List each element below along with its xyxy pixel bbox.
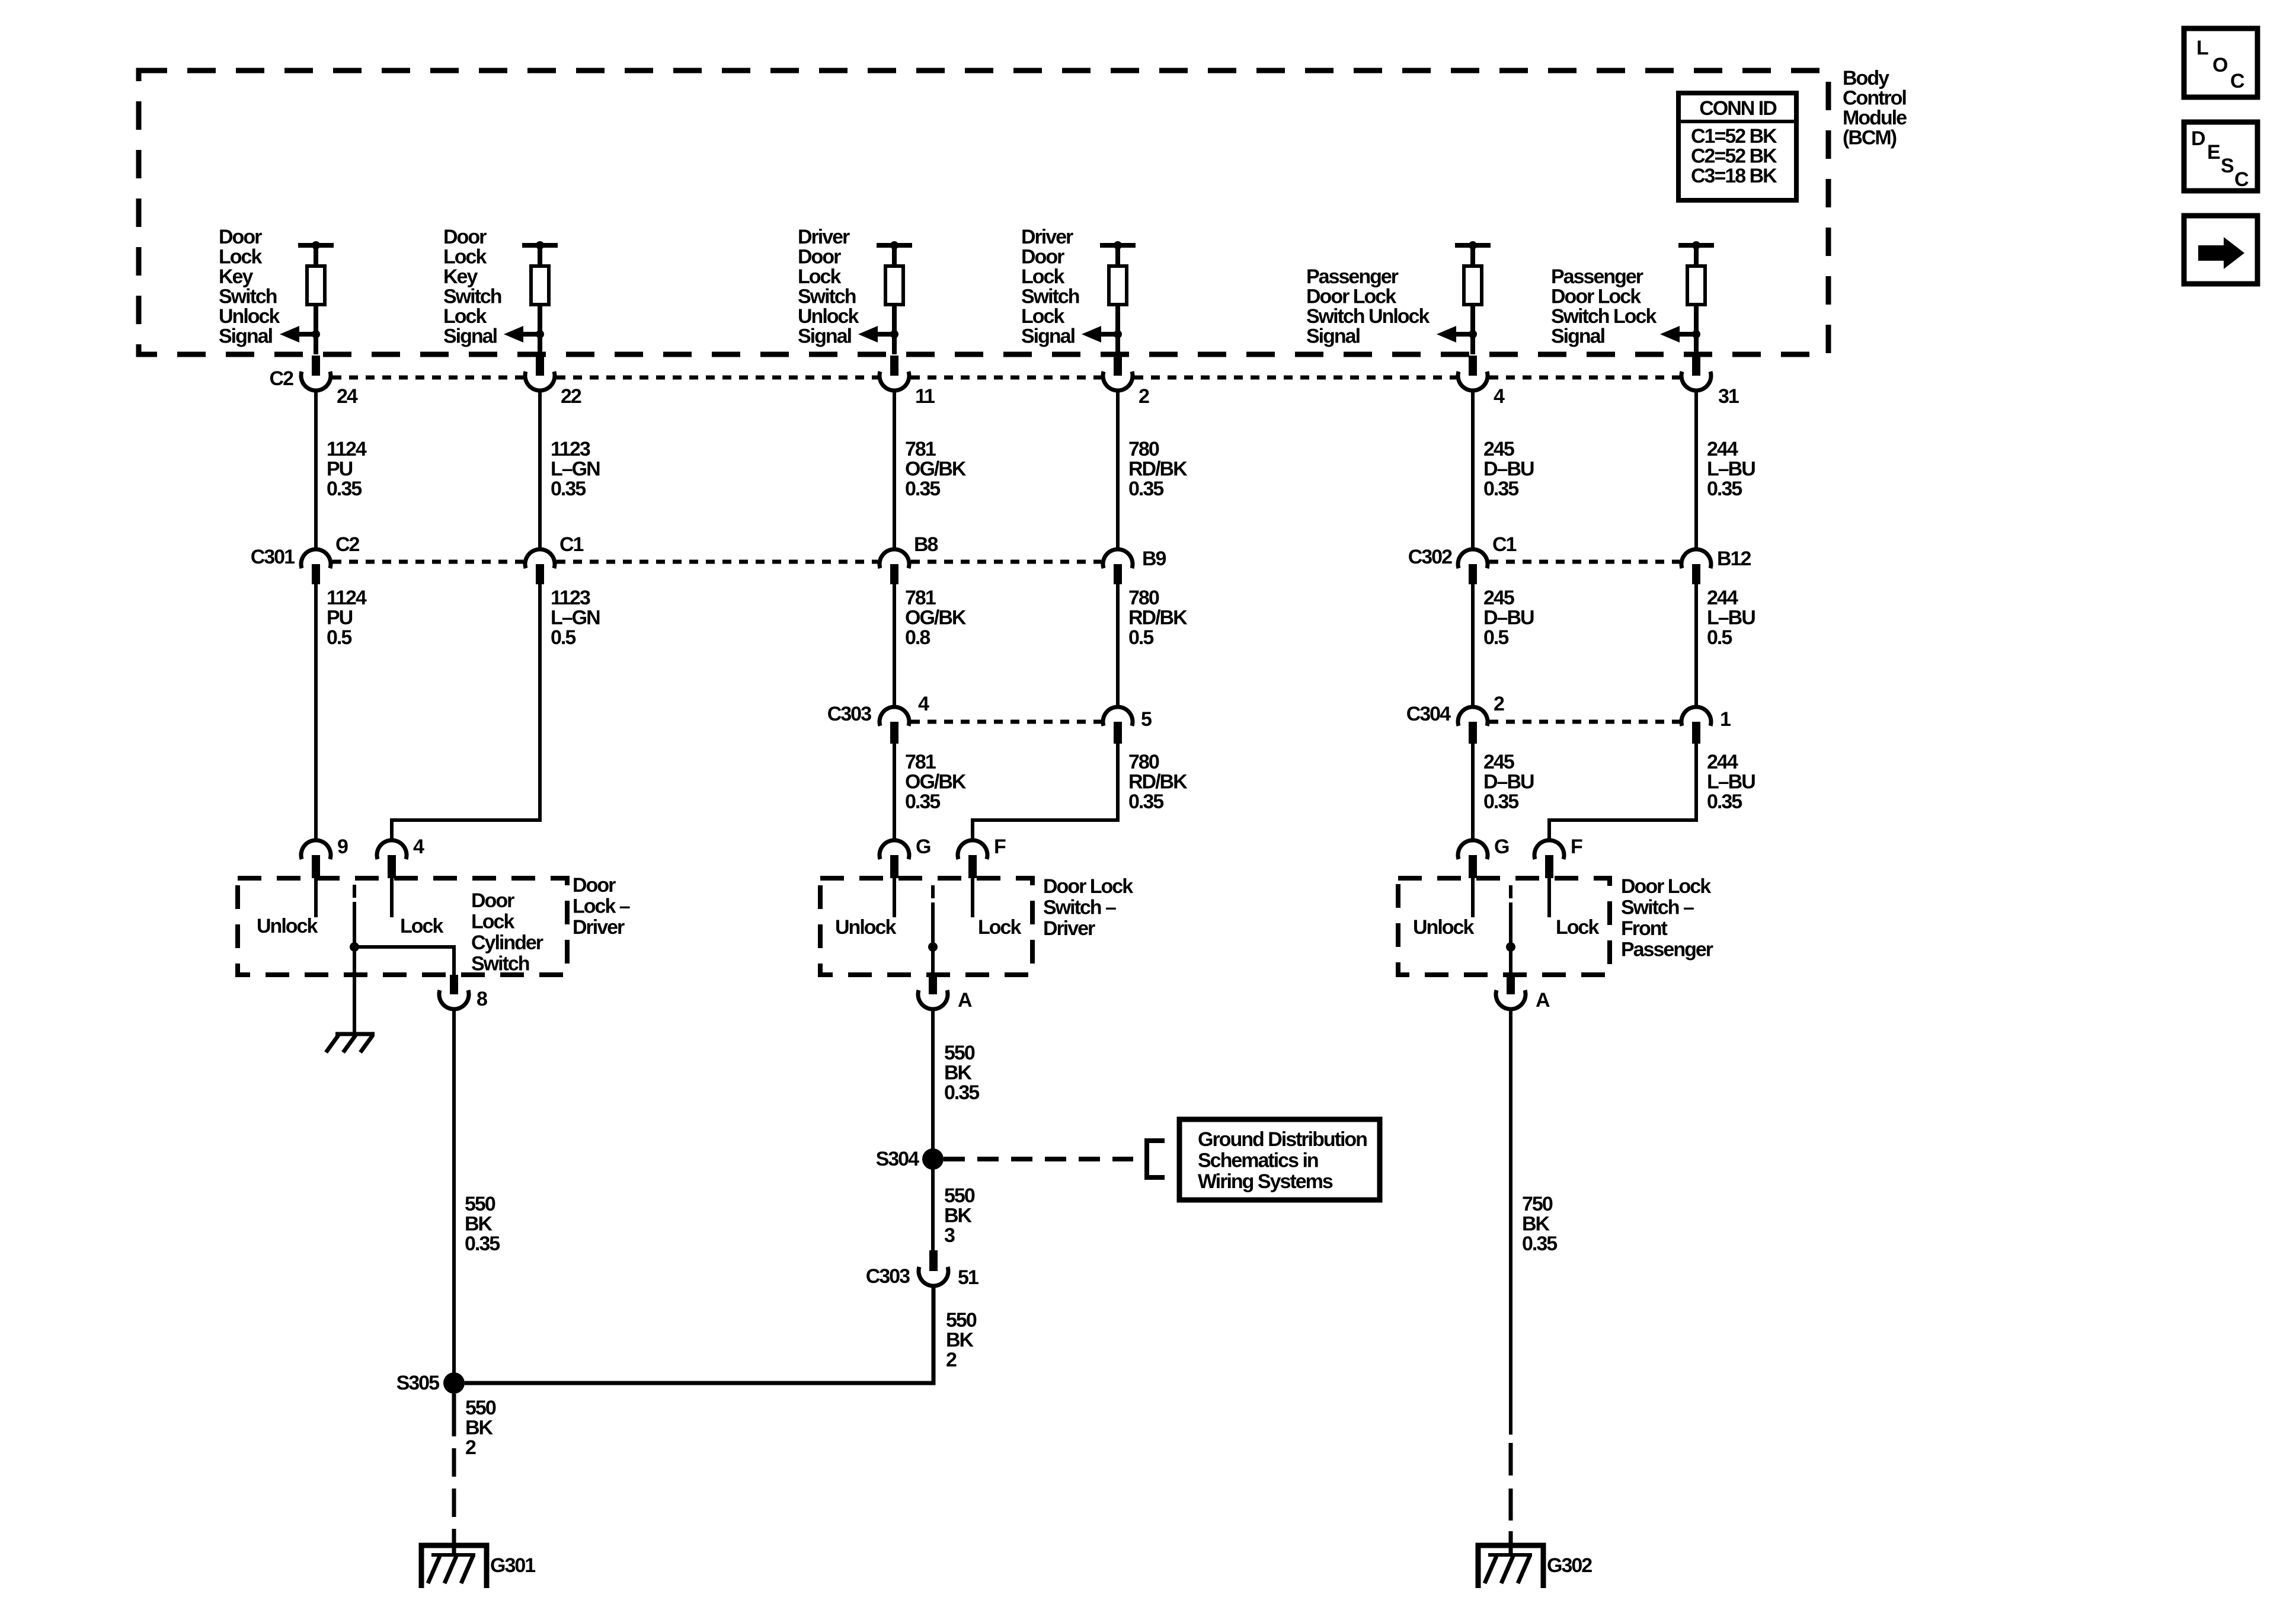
svg-text:Lock: Lock — [978, 916, 1021, 939]
terminal F connector driver switch — [958, 836, 1006, 878]
door lock key switch lock signal label — [443, 226, 501, 348]
svg-text:D: D — [2191, 127, 2205, 150]
svg-text:31: 31 — [1718, 385, 1739, 408]
C301 cavity B8 connector — [880, 533, 938, 584]
svg-text:1: 1 — [1720, 708, 1731, 731]
BCM pin 31 connector — [1681, 356, 1739, 408]
svg-text:S305: S305 — [396, 1372, 439, 1394]
svg-text:11: 11 — [915, 385, 935, 408]
reference bracket — [1147, 1141, 1165, 1177]
svg-text:5: 5 — [1141, 708, 1152, 731]
svg-text:24: 24 — [337, 385, 358, 408]
C303 cavity 4 connector — [880, 693, 929, 744]
terminal F connector passenger switch — [1534, 836, 1582, 878]
connector C2 label — [270, 367, 294, 390]
dashed reference line from S304 — [944, 1157, 1133, 1161]
door lock key switch unlock signal label — [219, 226, 280, 348]
switch SW1 in BCM — [280, 241, 334, 354]
driver switch common tick — [931, 885, 935, 898]
wire 245 D-BU 0.5 — [1473, 583, 1534, 709]
svg-text:22: 22 — [561, 385, 581, 408]
C302 cavity C1 connector — [1458, 533, 1517, 584]
svg-text:G: G — [1494, 836, 1509, 858]
svg-text:G302: G302 — [1547, 1554, 1592, 1577]
wire dashed to G302 — [1509, 1443, 1513, 1554]
svg-text:C303: C303 — [866, 1265, 910, 1288]
svg-text:E: E — [2207, 141, 2220, 164]
CONN ID table — [1678, 93, 1796, 200]
passenger switch common junction node — [1506, 942, 1515, 952]
svg-text:C303: C303 — [827, 703, 871, 725]
svg-text:B12: B12 — [1717, 548, 1751, 570]
svg-text:4: 4 — [1494, 385, 1505, 408]
connector C302 label — [1408, 546, 1452, 568]
svg-text:A: A — [1536, 989, 1550, 1012]
lock contact wire inside driver switch — [971, 877, 974, 917]
svg-text:C1=52 BKC2=52 BKC3=18 BK: C1=52 BKC2=52 BKC3=18 BK — [1691, 125, 1777, 187]
wire 550 BK 0.35 from terminal A driver — [933, 1009, 979, 1150]
svg-text:S304: S304 — [876, 1148, 919, 1170]
svg-text:G301: G301 — [490, 1554, 535, 1577]
wire from common to terminal 8 — [354, 947, 454, 977]
C301 cavity C2 connector — [301, 533, 360, 584]
svg-text:Unlock: Unlock — [257, 915, 318, 937]
door lock cylinder switch dashed box — [238, 878, 567, 975]
Body Control Module BCM dashed outline — [139, 71, 1828, 354]
C304 cavity 1 connector — [1681, 707, 1731, 744]
wire 781 OG/BK 0.35 — [894, 389, 967, 551]
svg-text:C302: C302 — [1408, 546, 1452, 568]
connector C303 label — [827, 703, 871, 725]
BCM name label — [1843, 67, 1907, 149]
wire 780 RD/BK 0.5 — [1118, 583, 1188, 709]
splice S304 — [876, 1148, 944, 1170]
cylinder switch common junction node — [350, 942, 359, 952]
svg-text:CONN ID: CONN ID — [1699, 97, 1777, 120]
svg-text:2: 2 — [1139, 385, 1149, 408]
unlock contact wire inside driver switch — [893, 877, 896, 917]
door lock switch driver label — [1043, 875, 1133, 940]
wire 750 BK 0.35 from terminal A passenger — [1511, 1009, 1557, 1435]
wire 244 L-BU 0.35 — [1696, 389, 1755, 551]
terminal 4 connector — [377, 836, 424, 878]
terminal G connector driver switch — [880, 836, 930, 878]
C303 cavity 5 connector — [1103, 707, 1152, 744]
svg-text:S: S — [2221, 155, 2234, 177]
svg-text:Unlock: Unlock — [835, 916, 896, 939]
ground G301 — [421, 1545, 535, 1588]
splice S305 — [396, 1372, 465, 1394]
wire 244 L-BU 0.5 — [1696, 583, 1755, 709]
driver switch common junction node — [928, 942, 938, 952]
svg-text:C: C — [2234, 168, 2249, 191]
connector C2 row dotted line — [332, 376, 1680, 380]
wire 1123 L-GN 0.5 with jog to lock terminal — [392, 583, 600, 842]
wire 245 D-BU 0.35 lower — [1473, 743, 1534, 842]
svg-text:C304: C304 — [1406, 703, 1451, 725]
door lock switch front passenger dashed box — [1398, 878, 1610, 975]
unlock label passenger switch — [1413, 916, 1474, 939]
svg-text:C1: C1 — [559, 533, 584, 556]
svg-text:B9: B9 — [1142, 548, 1166, 570]
driver door lock switch lock signal label — [1021, 226, 1079, 348]
driver switch common wire — [931, 902, 935, 977]
switch SW5 in BCM — [1437, 241, 1491, 354]
passenger switch common tick — [1509, 885, 1512, 898]
svg-text:F: F — [994, 836, 1006, 858]
cylinder switch common wire to ground — [353, 902, 356, 1033]
wire 245 D-BU 0.35 — [1473, 389, 1534, 551]
lock contact wire inside passenger switch — [1547, 877, 1551, 917]
svg-text:Unlock: Unlock — [1413, 916, 1474, 939]
arrow legend box — [2184, 216, 2257, 284]
svg-text:Lock: Lock — [1556, 916, 1599, 939]
connector C304 row dotted line — [1489, 720, 1680, 724]
svg-text:DriverDoorLockSwitchLockSignal: DriverDoorLockSwitchLockSignal — [1021, 226, 1079, 348]
wire 550 BK 2 below S305 dashed to G301 — [454, 1394, 496, 1554]
switch SW3 in BCM — [858, 241, 912, 354]
svg-text:O: O — [2212, 54, 2228, 76]
connector C303 cavity 51 — [866, 1250, 978, 1289]
connector C301 row dotted line — [332, 560, 1101, 564]
wire 1124 PU 0.5 — [316, 583, 367, 842]
connector C303 row dotted line — [911, 720, 1101, 724]
terminal 8 connector — [439, 975, 487, 1010]
ground G302 — [1478, 1545, 1592, 1588]
svg-text:8: 8 — [477, 988, 487, 1010]
lock contact wire inside cylinder switch — [390, 877, 394, 917]
passenger door lock switch unlock signal label — [1306, 265, 1430, 348]
switch SW6 in BCM — [1660, 241, 1714, 354]
svg-text:C2: C2 — [335, 533, 360, 556]
BCM pin 4 connector — [1458, 356, 1505, 408]
svg-text:B8: B8 — [914, 533, 938, 556]
chassis ground at cylinder switch — [326, 1034, 375, 1052]
C301 cavity B9 connector — [1103, 548, 1166, 584]
lock label cylinder switch — [400, 915, 443, 937]
terminal A connector driver switch — [918, 975, 972, 1012]
wire 780 RD/BK 0.35 lower with jog — [973, 743, 1188, 842]
unlock contact wire inside passenger switch — [1471, 877, 1475, 917]
wire 1123 L-GN 0.35 — [540, 389, 600, 551]
wire 550 BK 0.35 from terminal 8 — [454, 1009, 500, 1383]
svg-text:L: L — [2196, 37, 2208, 59]
LOC legend box — [2184, 28, 2257, 97]
terminal A connector passenger switch — [1496, 975, 1550, 1012]
terminal 9 connector — [301, 836, 348, 878]
wire 781 OG/BK 0.8 — [894, 583, 967, 709]
wire 780 RD/BK 0.35 — [1118, 389, 1188, 551]
lock label driver switch — [978, 916, 1021, 939]
C301 cavity C1 connector — [525, 533, 584, 584]
svg-text:Lock: Lock — [400, 915, 443, 937]
unlock label driver switch — [835, 916, 896, 939]
svg-text:C: C — [2230, 70, 2244, 92]
DESC legend box — [2184, 122, 2257, 191]
switch SW4 in BCM — [1082, 241, 1136, 354]
door lock switch driver dashed box — [820, 878, 1032, 975]
ground distribution callout box — [1179, 1119, 1380, 1200]
cylinder switch common tick — [353, 885, 356, 898]
svg-text:9: 9 — [337, 836, 348, 858]
svg-text:G: G — [916, 836, 930, 858]
C304 cavity 2 connector — [1458, 693, 1504, 744]
svg-text:4: 4 — [918, 693, 929, 715]
svg-text:C1: C1 — [1492, 533, 1517, 556]
svg-text:C301: C301 — [251, 546, 295, 568]
svg-text:C2: C2 — [270, 367, 294, 390]
terminal G connector passenger switch — [1458, 836, 1509, 878]
BCM pin 22 connector — [525, 356, 581, 408]
wire 244 L-BU 0.35 lower with jog — [1549, 743, 1755, 842]
connector C304 label — [1406, 703, 1451, 725]
door lock driver assembly label — [573, 874, 630, 939]
BCM pin 24 connector — [301, 356, 358, 408]
svg-text:A: A — [958, 989, 972, 1012]
BCM pin 11 connector — [880, 356, 935, 408]
passenger switch common wire — [1509, 902, 1512, 977]
unlock contact wire inside cylinder switch — [314, 877, 318, 917]
BCM pin 2 connector — [1103, 356, 1149, 408]
wire 1124 PU 0.35 — [316, 389, 367, 551]
door lock switch front passenger label — [1621, 875, 1713, 961]
C302 cavity B12 connector — [1681, 548, 1751, 584]
lock label passenger switch — [1556, 916, 1599, 939]
wire 550 BK 3 below S304 — [933, 1169, 975, 1251]
door lock cylinder switch label — [471, 889, 543, 975]
passenger door lock switch lock signal label — [1551, 265, 1657, 348]
svg-text:2: 2 — [1494, 693, 1504, 715]
svg-text:51: 51 — [958, 1266, 978, 1289]
connector C301 label — [251, 546, 295, 568]
switch SW2 in BCM — [504, 241, 558, 354]
wire 781 OG/BK 0.35 lower — [894, 743, 967, 842]
svg-text:4: 4 — [413, 836, 424, 858]
unlock label cylinder switch — [257, 915, 318, 937]
wire 550 BK 2 from C303-51 to S305 — [465, 1286, 977, 1383]
svg-text:F: F — [1571, 836, 1582, 858]
connector C302 row dotted line — [1489, 560, 1680, 564]
driver door lock switch unlock signal label — [798, 226, 859, 348]
